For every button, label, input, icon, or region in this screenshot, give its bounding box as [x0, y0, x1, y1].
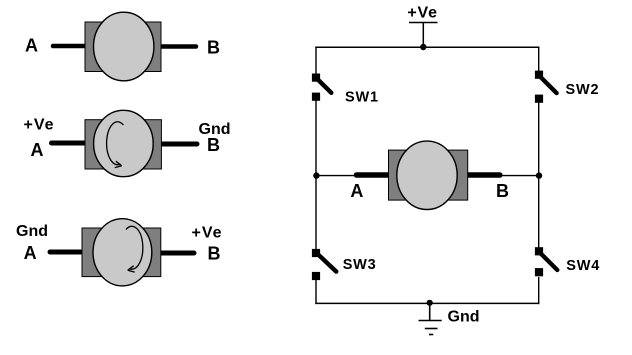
wire left rail upper [315, 47, 317, 75]
svg-text:A: A [31, 140, 44, 160]
motor M2 stator body [85, 120, 161, 169]
counter-clockwise rotation arrow of motor M3 [126, 226, 143, 272]
wire right rail upper [538, 47, 540, 72]
motor M3 lead wire B [155, 251, 194, 256]
wire right rail middle [538, 102, 540, 176]
wire bottom rail [315, 302, 539, 304]
switch SW2 [535, 71, 557, 103]
wire node A to bridge motor [316, 175, 358, 177]
motor M1 lead wire B [156, 44, 196, 49]
wire left rail lower [315, 176, 317, 250]
motor M3 stator body [82, 228, 161, 277]
svg-text:B: B [207, 38, 220, 58]
wire top rail [315, 46, 539, 48]
motor M3 lead wire A [50, 250, 92, 255]
svg-text:Gnd: Gnd [16, 223, 48, 240]
motor M3 rotor [93, 219, 152, 286]
motor M1 stator body [85, 22, 161, 72]
svg-text:SW3: SW3 [343, 257, 377, 273]
node ground junction [427, 300, 433, 306]
switch SW4 [535, 247, 557, 276]
wire bridge motor to node B [500, 175, 539, 177]
motor M1 lead wire A [53, 44, 94, 49]
motor M4 lead wire B [467, 172, 500, 178]
svg-text:A: A [25, 36, 38, 56]
motor M2 lead wire B [156, 142, 197, 147]
node B junction on right rail [536, 172, 542, 178]
motor M1 rotor [94, 12, 154, 81]
motor M4 stator body [389, 150, 468, 200]
svg-text:Gnd: Gnd [448, 308, 480, 325]
node A junction on left rail [313, 172, 319, 178]
motor M2 lead wire A [52, 141, 95, 146]
motor M4 rotor [397, 141, 457, 209]
node supply junction [420, 44, 426, 50]
svg-text:SW2: SW2 [566, 82, 600, 98]
svg-text:B: B [496, 181, 509, 201]
ground symbol [419, 303, 442, 335]
clockwise rotation arrow of motor M2 [107, 122, 124, 168]
svg-text:SW1: SW1 [345, 90, 379, 106]
motor M2 rotor [94, 110, 154, 176]
wire left rail bottom [315, 279, 317, 304]
switch SW3 [312, 249, 336, 280]
+Ve supply symbol [409, 23, 438, 48]
svg-text:+Ve: +Ve [407, 5, 437, 22]
svg-text:A: A [24, 243, 37, 263]
wire right rail lower [538, 176, 540, 249]
wire left rail middle [315, 100, 317, 176]
svg-text:B: B [207, 135, 220, 155]
svg-text:SW4: SW4 [566, 258, 600, 274]
svg-text:A: A [350, 181, 363, 201]
motor M4 lead wire A [357, 172, 390, 178]
switch SW1 [312, 74, 331, 101]
svg-text:+Ve: +Ve [192, 224, 223, 241]
svg-text:B: B [208, 244, 221, 264]
svg-text:+Ve: +Ve [24, 116, 55, 133]
wire right rail bottom [538, 277, 540, 304]
